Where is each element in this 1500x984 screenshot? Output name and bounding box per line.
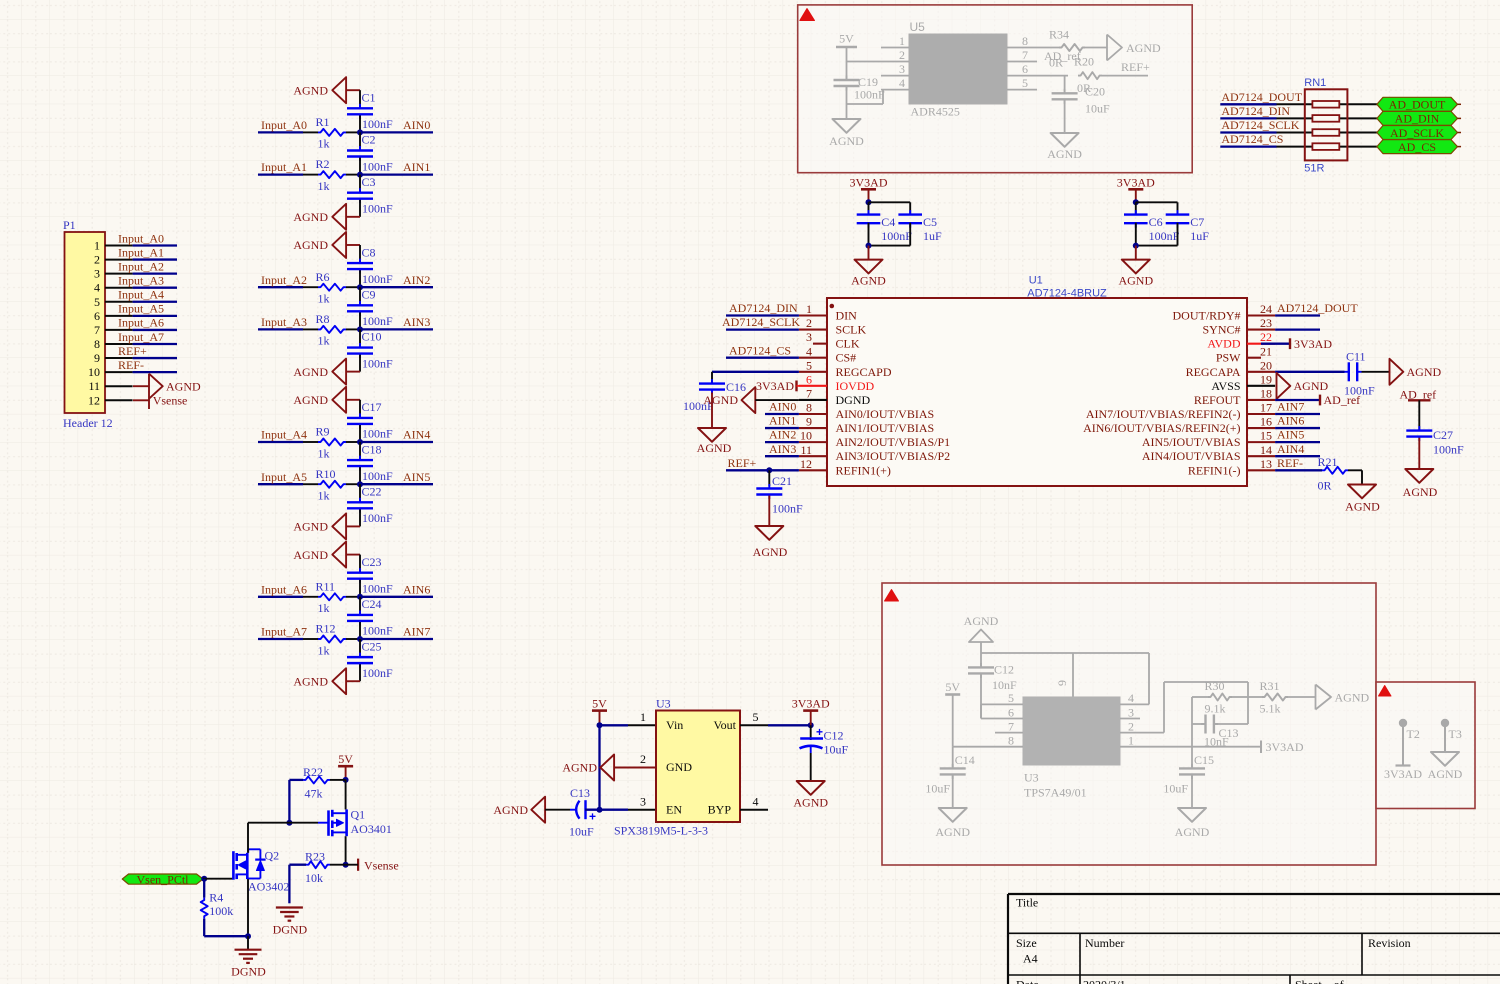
wire Input_A2 to R6 bbox=[303, 286, 318, 288]
svg-text:AGND: AGND bbox=[703, 393, 738, 407]
svg-text:AGND: AGND bbox=[1428, 767, 1463, 781]
wire net AIN1 to U1 bbox=[765, 427, 799, 429]
wire net AIN5 to U1 right bbox=[1275, 441, 1320, 443]
junction DGND node bbox=[245, 933, 251, 939]
wire node to C3 bbox=[359, 175, 361, 192]
svg-text:AO3402: AO3402 bbox=[248, 880, 289, 894]
svg-text:AIN3/IOUT/VBIAS/P2: AIN3/IOUT/VBIAS/P2 bbox=[836, 449, 951, 463]
P1 pin 3 lead bbox=[105, 273, 133, 275]
svg-text:CLK: CLK bbox=[836, 337, 860, 351]
power port 3V3AD below T2 (masked) bbox=[1396, 764, 1411, 766]
svg-text:11: 11 bbox=[800, 443, 812, 457]
svg-text:Input_A2: Input_A2 bbox=[118, 259, 164, 273]
resistor R9 bbox=[318, 439, 346, 446]
svg-text:C4: C4 bbox=[881, 215, 895, 229]
wire net AD7124_CS to RN1 bbox=[1220, 145, 1276, 147]
svg-text:REF-: REF- bbox=[118, 358, 144, 372]
capacitor C3 bbox=[359, 188, 361, 193]
resistor R1 bbox=[318, 129, 346, 136]
svg-text:7: 7 bbox=[1022, 48, 1028, 62]
svg-text:AGND: AGND bbox=[1126, 41, 1161, 55]
wire U3 Vout to 3V3AD bbox=[768, 724, 811, 726]
svg-text:AGND: AGND bbox=[293, 238, 328, 252]
wire TPS pin2 to divider (masked) bbox=[1120, 732, 1164, 734]
svg-text:PSW: PSW bbox=[1216, 351, 1241, 365]
wire U1 pin18 REFOUT to AD_ref bbox=[1275, 399, 1320, 401]
U5 pin 6 (masked) bbox=[1007, 75, 1037, 77]
svg-text:100nF: 100nF bbox=[362, 159, 393, 173]
wire P1 pin11 to AGND bbox=[133, 385, 149, 387]
capacitor C6 bbox=[1135, 210, 1137, 215]
RN1 resistor element 4 bbox=[1312, 143, 1339, 150]
wire net Input_A0 from P1 bbox=[133, 244, 177, 246]
svg-text:12: 12 bbox=[88, 393, 100, 407]
svg-text:AIN2/IOUT/VBIAS/P1: AIN2/IOUT/VBIAS/P1 bbox=[836, 435, 951, 449]
svg-text:R22: R22 bbox=[303, 765, 323, 779]
svg-text:AGND: AGND bbox=[493, 803, 528, 817]
ground AGND below C6 bbox=[1135, 246, 1137, 260]
wire AGND to C23 bbox=[359, 555, 361, 572]
svg-text:1k: 1k bbox=[318, 446, 330, 460]
svg-text:1k: 1k bbox=[318, 292, 330, 306]
wire net Input_A2 bbox=[258, 286, 303, 288]
svg-text:Input_A0: Input_A0 bbox=[261, 118, 307, 132]
power port AGND right of R31 (masked) bbox=[1316, 685, 1332, 710]
svg-text:Revision: Revision bbox=[1368, 936, 1411, 950]
wire RN1 pin 8 to port bbox=[1339, 103, 1377, 105]
svg-text:100nF: 100nF bbox=[362, 117, 393, 131]
capacitor C24 bbox=[359, 610, 361, 615]
wire R11 to node bbox=[346, 596, 360, 598]
svg-text:2: 2 bbox=[899, 48, 905, 62]
wire Input_A4 to R9 bbox=[303, 441, 318, 443]
ground AGND below C16 bbox=[698, 428, 726, 442]
wire C8 to node bbox=[359, 270, 361, 287]
ground AGND below C4 bbox=[868, 246, 870, 260]
svg-text:100nF: 100nF bbox=[1149, 229, 1180, 243]
svg-text:T2: T2 bbox=[1407, 727, 1420, 741]
wire Vsense node to bar bbox=[346, 864, 359, 866]
wire C12 to AGND bbox=[810, 753, 812, 781]
svg-text:5: 5 bbox=[94, 295, 100, 309]
wire C21 to AGND bbox=[768, 496, 770, 526]
svg-text:8: 8 bbox=[94, 337, 100, 351]
wire to C5 top bbox=[869, 201, 911, 203]
harness port AD_DIN bbox=[1377, 111, 1458, 125]
power port AGND right of C11 bbox=[1390, 359, 1404, 385]
wire Vout node to C12 bbox=[810, 725, 812, 740]
svg-text:Q1: Q1 bbox=[351, 808, 366, 822]
svg-text:Vout: Vout bbox=[714, 718, 737, 732]
svg-text:AGND: AGND bbox=[293, 393, 328, 407]
svg-text:5: 5 bbox=[753, 710, 759, 724]
wire net AD7124_SCLK bbox=[726, 328, 799, 330]
wire net AD7124_DIN to RN1 bbox=[1220, 117, 1276, 119]
svg-text:C12: C12 bbox=[994, 663, 1014, 677]
svg-text:100nF: 100nF bbox=[362, 356, 393, 370]
resistor R23 10k bbox=[306, 861, 330, 868]
transistor Q2 AO3402 NMOS bbox=[232, 851, 235, 880]
svg-text:AGND: AGND bbox=[697, 441, 732, 455]
wire net AIN3 bbox=[360, 328, 433, 330]
svg-text:AGND: AGND bbox=[293, 365, 328, 379]
svg-text:3: 3 bbox=[806, 330, 812, 344]
svg-text:1k: 1k bbox=[318, 179, 330, 193]
P1 pin 5 lead bbox=[105, 301, 133, 303]
U1 pin 6 lead bbox=[799, 385, 827, 387]
svg-text:R34: R34 bbox=[1049, 28, 1069, 42]
junction Vsen_PCtl node bbox=[201, 876, 207, 882]
U1 pin 23 lead bbox=[1247, 329, 1275, 331]
svg-text:AIN6/IOUT/VBIAS/REFIN2(+): AIN6/IOUT/VBIAS/REFIN2(+) bbox=[1083, 421, 1240, 435]
svg-text:3V3AD: 3V3AD bbox=[1117, 175, 1155, 189]
harness port Vsen_PCtl bbox=[122, 874, 203, 884]
wire R12 to node bbox=[346, 638, 360, 640]
svg-text:100nF: 100nF bbox=[854, 88, 885, 102]
svg-text:AGND: AGND bbox=[293, 548, 328, 562]
svg-text:Header 12: Header 12 bbox=[63, 416, 113, 430]
power port 3V3AD (masked) bbox=[1260, 741, 1262, 754]
wire net AD7124_DOUT from U1 pin24 bbox=[1275, 314, 1320, 316]
wire R22 to Q1 gate net bbox=[289, 779, 303, 781]
svg-text:2020/3/1: 2020/3/1 bbox=[1083, 978, 1126, 984]
svg-text:DGND: DGND bbox=[836, 393, 871, 407]
svg-text:AIN2: AIN2 bbox=[403, 273, 430, 287]
wire C24 to node bbox=[359, 622, 361, 639]
U1 pin 20 lead bbox=[1247, 371, 1275, 373]
svg-text:GND: GND bbox=[666, 760, 692, 774]
wire net AD7124_DOUT to RN1 bbox=[1220, 103, 1276, 105]
svg-text:AGND: AGND bbox=[1335, 691, 1370, 705]
svg-text:BYP: BYP bbox=[708, 802, 732, 816]
capacitor C4 bbox=[868, 210, 870, 215]
junction REF+ / C21 bbox=[766, 467, 772, 473]
wire C19 to U5 pin4 (masked) bbox=[847, 103, 884, 105]
resistor R22 47k bbox=[303, 776, 330, 783]
wire net Input_A3 bbox=[258, 328, 303, 330]
ground AGND below C21 bbox=[755, 526, 783, 540]
svg-text:R11: R11 bbox=[316, 579, 336, 593]
junction gate node bbox=[286, 820, 292, 826]
P1 pin 8 lead bbox=[105, 343, 133, 345]
wire C25 to AGND bbox=[359, 664, 361, 681]
svg-text:Q2: Q2 bbox=[265, 849, 280, 863]
svg-text:1k: 1k bbox=[318, 643, 330, 657]
svg-text:22: 22 bbox=[1260, 330, 1272, 344]
svg-text:AGND: AGND bbox=[293, 210, 328, 224]
compile-masked region test points bbox=[1376, 682, 1475, 809]
U5 pin 8 (masked) bbox=[1007, 47, 1037, 49]
svg-text:100nF: 100nF bbox=[362, 581, 393, 595]
svg-text:3V3AD: 3V3AD bbox=[756, 379, 794, 393]
svg-text:17: 17 bbox=[1260, 401, 1272, 415]
wire Q2 drain up to gate line of Q1 bbox=[247, 823, 249, 853]
wire U1 pin5 REGCAPD to C16 bbox=[712, 371, 799, 373]
U3 TPS pin9 lead (masked) bbox=[1072, 653, 1074, 697]
svg-text:AIN1: AIN1 bbox=[403, 160, 430, 174]
junction 3V3AD to C6/C7 bbox=[1133, 199, 1139, 205]
resistor R12 bbox=[318, 636, 346, 643]
svg-text:Input_A2: Input_A2 bbox=[261, 273, 307, 287]
svg-text:16: 16 bbox=[1260, 415, 1272, 429]
svg-text:Input_A0: Input_A0 bbox=[118, 231, 164, 245]
wire net Input_A0 bbox=[258, 131, 303, 133]
svg-text:4: 4 bbox=[806, 344, 812, 358]
svg-text:AGND: AGND bbox=[1403, 485, 1438, 499]
U1 pin 21 lead bbox=[1247, 357, 1261, 359]
svg-text:14: 14 bbox=[1260, 443, 1272, 457]
ground AGND below C19 (masked) bbox=[846, 104, 848, 119]
wire net Input_A6 from P1 bbox=[133, 329, 177, 331]
wire Q2 source down bbox=[247, 879, 249, 936]
svg-text:100nF: 100nF bbox=[362, 624, 393, 638]
svg-text:AIN0/IOUT/VBIAS: AIN0/IOUT/VBIAS bbox=[836, 407, 935, 421]
wire net AIN7 to U1 right bbox=[1275, 413, 1320, 415]
svg-text:AGND: AGND bbox=[1294, 379, 1329, 393]
svg-text:C14: C14 bbox=[955, 753, 975, 767]
svg-text:47k: 47k bbox=[305, 786, 323, 800]
junction node AIN0 bbox=[357, 129, 363, 135]
svg-text:DGND: DGND bbox=[231, 965, 266, 979]
svg-text:15: 15 bbox=[1260, 429, 1272, 443]
svg-text:AD_CS: AD_CS bbox=[1398, 140, 1436, 154]
wire into RN1 pin 4 bbox=[1277, 146, 1313, 148]
wire net Input_A7 bbox=[258, 638, 303, 640]
wire 5V down to EN bbox=[598, 725, 600, 809]
ground AGND below C15 (masked) bbox=[1178, 808, 1206, 822]
capacitor C8 bbox=[359, 259, 361, 264]
svg-text:AIN1: AIN1 bbox=[769, 414, 796, 428]
wire net AD7124_CS bbox=[726, 357, 799, 359]
svg-text:C5: C5 bbox=[923, 215, 937, 229]
U5 pin 5 (masked) bbox=[1007, 89, 1037, 91]
junction Vout node bbox=[808, 722, 814, 728]
svg-text:9: 9 bbox=[94, 351, 100, 365]
capacitor C1 bbox=[359, 104, 361, 109]
resistor R11 bbox=[318, 593, 346, 600]
svg-text:10uF: 10uF bbox=[925, 782, 950, 796]
svg-text:Title: Title bbox=[1016, 896, 1038, 910]
svg-text:SCLK: SCLK bbox=[836, 323, 867, 337]
svg-text:Input_A5: Input_A5 bbox=[118, 302, 164, 316]
P1 pin 4 lead bbox=[105, 287, 133, 289]
svg-text:C20: C20 bbox=[1085, 85, 1105, 99]
svg-text:AGND: AGND bbox=[1175, 825, 1210, 839]
svg-text:12: 12 bbox=[800, 457, 812, 471]
wire R4 to DGND net bbox=[203, 919, 205, 937]
resistor R2 bbox=[318, 171, 346, 178]
wire TPS pin4 (masked) bbox=[1120, 703, 1149, 705]
svg-text:R9: R9 bbox=[316, 425, 330, 439]
wire C4 bottom bbox=[868, 223, 870, 246]
svg-text:Input_A5: Input_A5 bbox=[261, 470, 307, 484]
svg-text:1k: 1k bbox=[318, 489, 330, 503]
wire AGND to U1 pin7 bbox=[755, 399, 799, 401]
svg-text:T3: T3 bbox=[1449, 727, 1462, 741]
wire R2 to node bbox=[346, 174, 360, 176]
svg-text:IOVDD: IOVDD bbox=[836, 379, 875, 393]
wire R34 to AGND (masked) bbox=[1085, 47, 1107, 49]
P1 pin 9 lead bbox=[105, 357, 133, 359]
U1 pin 4 lead bbox=[799, 357, 827, 359]
svg-text:AGND: AGND bbox=[851, 273, 886, 287]
wire net AIN1 bbox=[360, 173, 433, 175]
svg-text:R30: R30 bbox=[1205, 679, 1225, 693]
svg-text:C27: C27 bbox=[1433, 428, 1453, 442]
svg-text:3V3AD: 3V3AD bbox=[1266, 740, 1304, 754]
wire RN1 pin 5 to port bbox=[1339, 146, 1377, 148]
wire R8 to node bbox=[346, 328, 360, 330]
svg-text:11: 11 bbox=[88, 379, 100, 393]
svg-text:19: 19 bbox=[1260, 372, 1272, 386]
wire C4 top bbox=[868, 202, 870, 215]
svg-text:C13: C13 bbox=[570, 786, 590, 800]
resistor R34 0R (masked) bbox=[1037, 47, 1059, 49]
svg-text:5V: 5V bbox=[592, 697, 607, 711]
wire Q1 source to 5V node bbox=[345, 780, 347, 810]
svg-text:AD7124_SCLK: AD7124_SCLK bbox=[722, 315, 800, 329]
P1 pin 6 lead bbox=[105, 315, 133, 317]
svg-text:U3: U3 bbox=[1024, 771, 1039, 785]
P1 pin 10 lead bbox=[105, 371, 133, 373]
connector P1 body bbox=[65, 232, 106, 413]
capacitor C22 bbox=[359, 498, 361, 503]
svg-text:Sheet of: Sheet of bbox=[1295, 978, 1344, 984]
U5 pin 2 (masked) bbox=[881, 61, 909, 63]
svg-text:A4: A4 bbox=[1023, 952, 1038, 966]
svg-text:AGND: AGND bbox=[562, 761, 597, 775]
resistor network RN1 outline bbox=[1305, 89, 1348, 160]
svg-text:DIN: DIN bbox=[836, 309, 858, 323]
wire net AIN4 bbox=[360, 441, 433, 443]
wire C11 to AGND bbox=[1362, 371, 1390, 373]
svg-text:100nF: 100nF bbox=[772, 502, 803, 516]
junction Vsense node bbox=[343, 862, 349, 868]
svg-text:6: 6 bbox=[1008, 705, 1014, 719]
capacitor C20 10uF (masked) bbox=[1064, 76, 1066, 92]
ground DGND below R23 bbox=[276, 906, 303, 908]
wire C9 to node bbox=[359, 313, 361, 330]
svg-text:9: 9 bbox=[806, 415, 812, 429]
U1 pin 24 lead bbox=[1247, 314, 1275, 316]
svg-text:1: 1 bbox=[806, 302, 812, 316]
wire Q1 drain to Vsense node bbox=[345, 836, 347, 865]
wire net Input_A3 from P1 bbox=[133, 287, 177, 289]
svg-text:10uF: 10uF bbox=[1163, 782, 1188, 796]
svg-text:C9: C9 bbox=[362, 288, 376, 302]
svg-text:4: 4 bbox=[94, 281, 100, 295]
U5 pin 4 (masked) bbox=[881, 89, 909, 91]
ground DGND below Q2 bbox=[235, 949, 262, 951]
wire RN1 pin 7 to port bbox=[1339, 117, 1377, 119]
svg-text:REFIN1(+): REFIN1(+) bbox=[836, 463, 891, 477]
junction node AIN4 bbox=[357, 439, 363, 445]
U5 pin 1 (masked) bbox=[881, 47, 909, 49]
svg-text:AIN3: AIN3 bbox=[403, 315, 430, 329]
svg-text:100nF: 100nF bbox=[881, 229, 912, 243]
svg-text:AD7124_CS: AD7124_CS bbox=[1221, 132, 1283, 146]
svg-text:5V: 5V bbox=[338, 752, 353, 766]
svg-text:Vsen_PCtl: Vsen_PCtl bbox=[136, 872, 189, 886]
svg-text:100nF: 100nF bbox=[362, 666, 393, 680]
svg-text:R2: R2 bbox=[316, 157, 330, 171]
svg-text:3: 3 bbox=[1128, 705, 1134, 719]
svg-text:1k: 1k bbox=[318, 334, 330, 348]
wire 3V3AD to U1 pin6 bbox=[797, 385, 799, 387]
svg-text:AGND: AGND bbox=[829, 134, 864, 148]
wire to DGND ground bbox=[247, 936, 249, 950]
wire net AIN0 to U1 bbox=[765, 413, 799, 415]
U1 pin 22 lead bbox=[1247, 343, 1275, 345]
wire R22 to 5V node bbox=[330, 779, 346, 781]
svg-text:TPS7A49/01: TPS7A49/01 bbox=[1024, 786, 1087, 800]
svg-text:C24: C24 bbox=[362, 597, 382, 611]
junction node AIN6 bbox=[357, 594, 363, 600]
IC U5 body (masked) bbox=[909, 34, 1007, 104]
svg-text:10: 10 bbox=[800, 429, 812, 443]
wire C18 to node bbox=[359, 467, 361, 484]
svg-text:1k: 1k bbox=[318, 601, 330, 615]
wire AGND to C1 bbox=[359, 90, 361, 107]
svg-text:0R: 0R bbox=[1318, 478, 1332, 492]
svg-text:Input_A3: Input_A3 bbox=[261, 315, 307, 329]
capacitor C13 10uF bbox=[576, 801, 579, 819]
svg-text:AIN5: AIN5 bbox=[403, 470, 430, 484]
svg-text:REF+: REF+ bbox=[1121, 60, 1150, 74]
wire C5 bottom bbox=[909, 223, 911, 246]
U1 pin 2 lead bbox=[799, 329, 827, 331]
svg-text:AGND: AGND bbox=[793, 796, 828, 810]
compile-masked region ADR4525 voltage reference bbox=[798, 5, 1192, 173]
svg-text:C10: C10 bbox=[362, 330, 382, 344]
svg-text:AGND: AGND bbox=[1118, 273, 1153, 287]
svg-text:AGND: AGND bbox=[1345, 500, 1380, 514]
svg-text:+: + bbox=[589, 810, 596, 824]
wire C22 to AGND bbox=[359, 510, 361, 527]
wire R1 to node bbox=[346, 131, 360, 133]
wire TPS pin1 to 3V3AD (masked) bbox=[1120, 746, 1261, 748]
capacitor C13 10nF (masked) bbox=[1192, 723, 1205, 725]
svg-text:AIN0: AIN0 bbox=[403, 118, 430, 132]
svg-text:Input_A1: Input_A1 bbox=[118, 245, 164, 259]
junction node AIN2 bbox=[357, 284, 363, 290]
svg-text:10uF: 10uF bbox=[569, 825, 594, 839]
wire P1 pin12 to Vsense bbox=[133, 399, 149, 401]
svg-text:4: 4 bbox=[1128, 691, 1134, 705]
wire Input_A7 to R12 bbox=[303, 638, 318, 640]
svg-text:C22: C22 bbox=[362, 485, 382, 499]
U3 pin3 lead bbox=[628, 809, 656, 811]
ground AGND below C27 bbox=[1405, 469, 1433, 483]
P1 pin 12 lead bbox=[105, 399, 133, 401]
U1 pin 18 lead bbox=[1247, 399, 1275, 401]
wire 5V to U5 pin2 (masked) bbox=[847, 61, 882, 63]
svg-text:AGND: AGND bbox=[293, 674, 328, 688]
svg-text:100nF: 100nF bbox=[1433, 443, 1464, 457]
svg-text:DOUT/RDY#: DOUT/RDY# bbox=[1173, 309, 1241, 323]
svg-text:6: 6 bbox=[1022, 62, 1028, 76]
capacitor C18 bbox=[359, 456, 361, 461]
svg-text:10nF: 10nF bbox=[1204, 735, 1229, 749]
svg-text:DGND: DGND bbox=[273, 923, 308, 937]
svg-text:AD7124_SCLK: AD7124_SCLK bbox=[1221, 118, 1299, 132]
svg-text:7: 7 bbox=[94, 323, 100, 337]
svg-text:P1: P1 bbox=[63, 218, 76, 232]
svg-text:C1: C1 bbox=[362, 90, 376, 104]
wire R10 to node bbox=[346, 483, 360, 485]
resistor R6 bbox=[318, 284, 346, 291]
wire R21 to AGND bbox=[1348, 469, 1362, 471]
